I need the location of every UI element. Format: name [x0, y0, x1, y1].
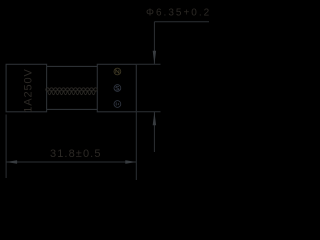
length extension line left [5, 115, 7, 179]
diameter dimension line upper [153, 22, 155, 65]
diameter extension line bottom [137, 111, 161, 113]
length arrowhead left [6, 160, 17, 164]
cert mark N [114, 68, 121, 75]
length extension line right [135, 112, 137, 180]
svg-text:1A250V: 1A250V [23, 68, 35, 113]
fuse element coil loops [46, 88, 97, 91]
svg-text:Φ6.35+0.2: Φ6.35+0.2 [146, 8, 211, 19]
length dimension line [6, 161, 136, 163]
glass tube top edge [47, 65, 98, 67]
cert mark PS [114, 101, 121, 108]
length arrowhead right [125, 160, 136, 164]
svg-text:31.8±0.5: 31.8±0.5 [50, 148, 102, 160]
fuse element coil dips [48, 90, 96, 94]
cert mark S [114, 85, 121, 92]
diameter lower arrowhead [153, 112, 156, 126]
glass tube bottom edge [47, 108, 98, 110]
fuse right end cap [97, 64, 136, 112]
diameter extension line top [137, 63, 161, 65]
diameter upper arrowhead [153, 51, 156, 65]
diameter dimension text leader underline [154, 21, 209, 23]
diameter dimension line lower [153, 112, 155, 152]
fuse left end cap [6, 64, 47, 112]
